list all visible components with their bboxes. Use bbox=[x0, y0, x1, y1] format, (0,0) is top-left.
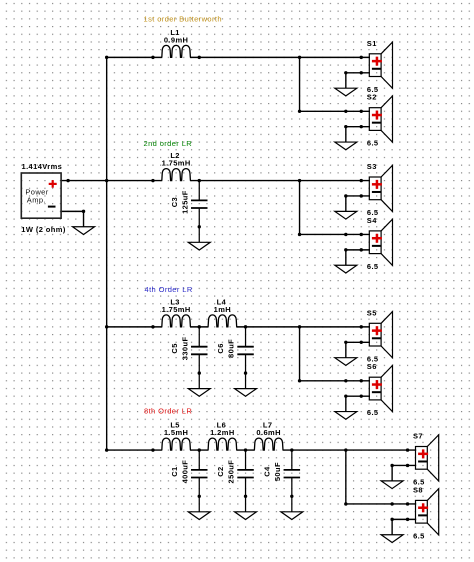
svg-text:0.6mH: 0.6mH bbox=[256, 428, 281, 437]
svg-text:80uF: 80uF bbox=[227, 339, 236, 358]
svg-text:2nd order LR: 2nd order LR bbox=[144, 139, 193, 148]
svg-text:S7: S7 bbox=[413, 431, 423, 440]
svg-text:6.5: 6.5 bbox=[367, 408, 379, 417]
svg-text:S1: S1 bbox=[367, 39, 377, 48]
svg-text:6.5: 6.5 bbox=[367, 139, 379, 148]
svg-text:50uF: 50uF bbox=[273, 462, 282, 481]
svg-text:1.5mH: 1.5mH bbox=[164, 428, 189, 437]
svg-text:6.5: 6.5 bbox=[367, 262, 379, 271]
svg-text:C3: C3 bbox=[170, 197, 179, 207]
svg-text:400uF: 400uF bbox=[180, 460, 189, 484]
svg-text:1mH: 1mH bbox=[214, 305, 231, 314]
svg-text:C2: C2 bbox=[216, 466, 225, 476]
svg-text:S4: S4 bbox=[367, 216, 377, 225]
svg-text:1st order Butterworth: 1st order Butterworth bbox=[144, 14, 222, 23]
svg-text:1.2mH: 1.2mH bbox=[210, 428, 235, 437]
svg-text:S3: S3 bbox=[367, 162, 377, 171]
svg-text:6.5: 6.5 bbox=[413, 531, 425, 540]
svg-text:C1: C1 bbox=[170, 466, 179, 476]
svg-text:1.75mH: 1.75mH bbox=[162, 305, 191, 314]
svg-text:S5: S5 bbox=[367, 308, 377, 317]
svg-text:4th Order LR: 4th Order LR bbox=[145, 285, 193, 294]
svg-text:1W (2 ohm): 1W (2 ohm) bbox=[21, 225, 66, 234]
svg-text:1.75mH: 1.75mH bbox=[162, 158, 191, 167]
svg-text:250uF: 250uF bbox=[227, 460, 236, 484]
svg-text:S8: S8 bbox=[413, 485, 423, 494]
svg-text:C4: C4 bbox=[263, 466, 272, 477]
svg-text:S2: S2 bbox=[367, 93, 377, 102]
svg-text:125uF: 125uF bbox=[180, 190, 189, 214]
svg-text:1.414Vrms: 1.414Vrms bbox=[22, 162, 63, 171]
svg-text:8th Order LR: 8th Order LR bbox=[144, 406, 192, 415]
svg-text:C6: C6 bbox=[216, 343, 225, 353]
svg-text:S6: S6 bbox=[367, 362, 377, 371]
svg-text:Amp.: Amp. bbox=[27, 195, 46, 204]
svg-text:C5: C5 bbox=[170, 343, 179, 353]
svg-text:0.9mH: 0.9mH bbox=[164, 35, 189, 44]
svg-text:330uF: 330uF bbox=[180, 337, 189, 361]
